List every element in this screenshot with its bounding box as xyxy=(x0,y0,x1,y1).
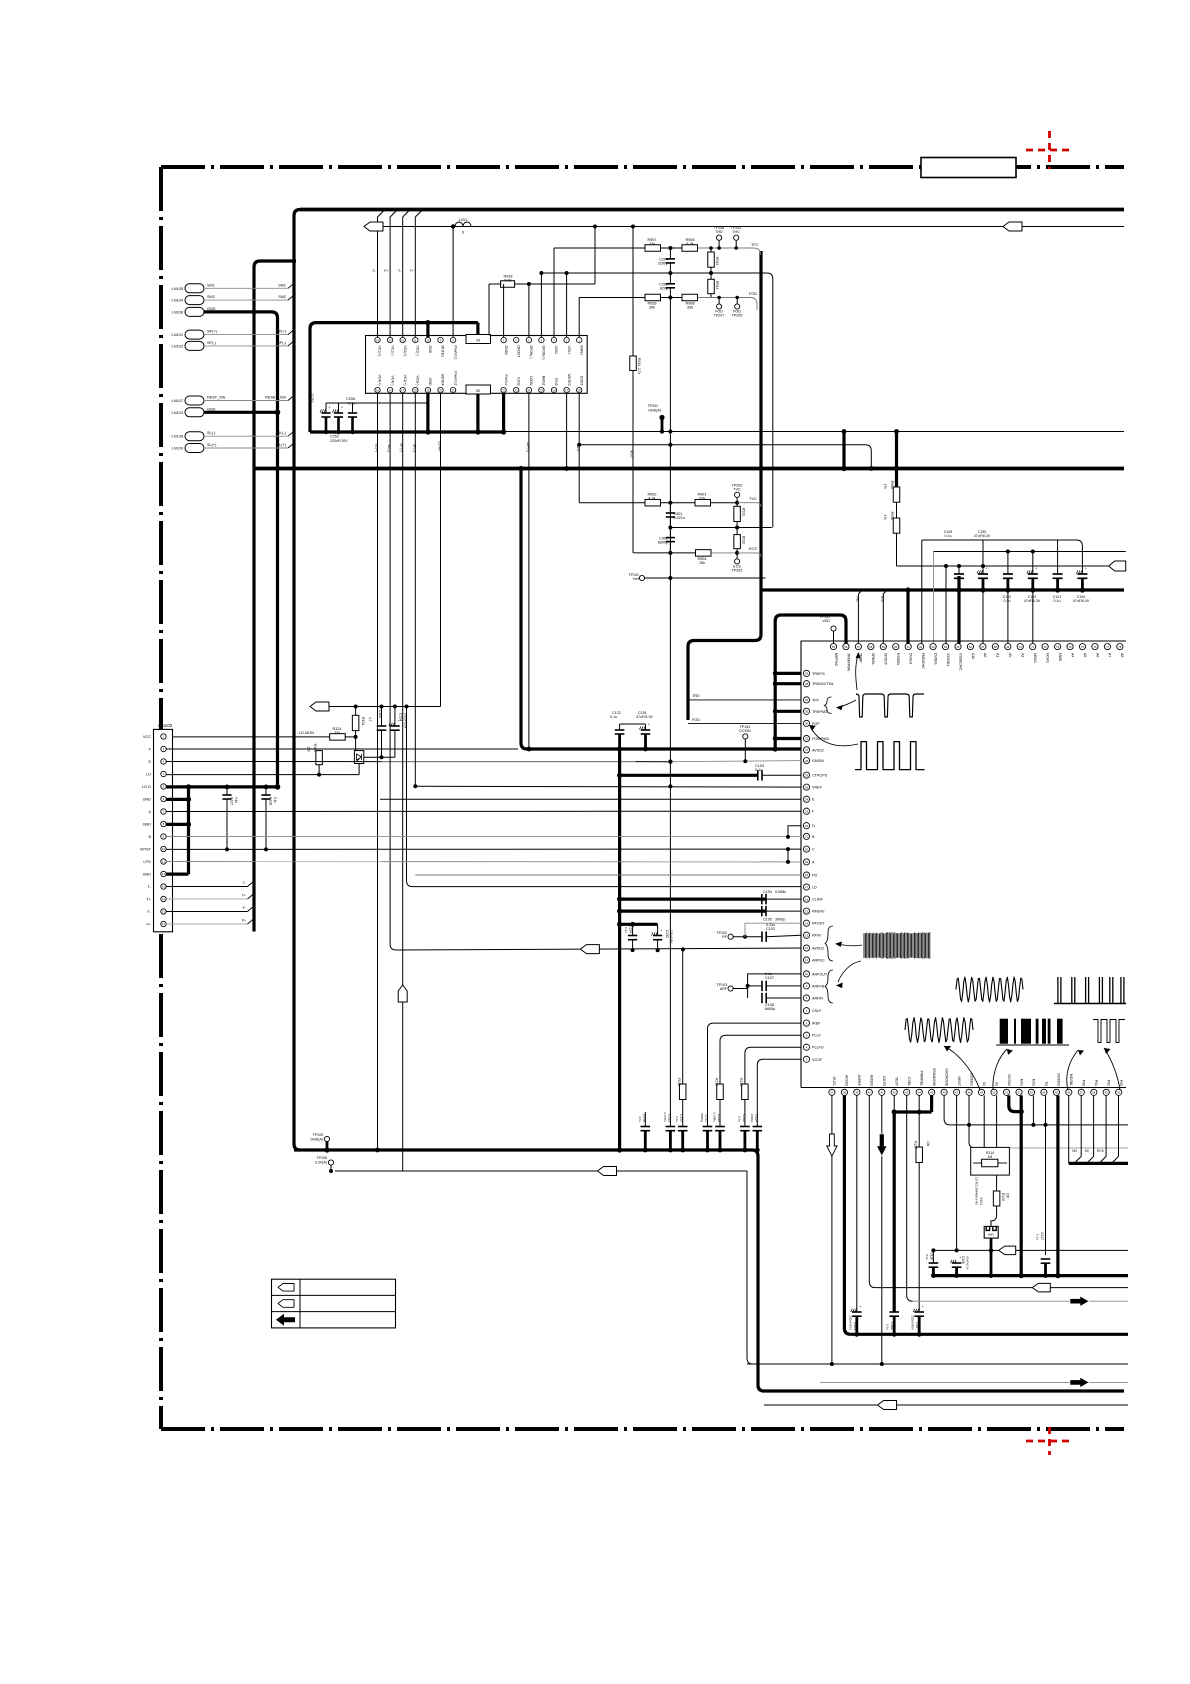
IC101 left pin 22 D xyxy=(803,823,809,829)
IC201 bottom pin 28 CONT xyxy=(577,387,582,392)
svg-text:VC2(+): VC2(+) xyxy=(403,346,407,357)
svg-text:5.6k: 5.6k xyxy=(504,279,511,283)
svg-text:DVDD1: DVDD1 xyxy=(933,653,937,665)
svg-text:MX1: MX1 xyxy=(1019,1079,1023,1086)
svg-text:GFON(+): GFON(+) xyxy=(542,346,546,360)
svg-text:VCC: VCC xyxy=(143,735,151,739)
svg-text:0.068u: 0.068u xyxy=(713,1113,717,1123)
svg-text:22k: 22k xyxy=(334,731,340,735)
IC201 bottom pin 16 VC4(-) xyxy=(387,387,392,392)
line y=708 top of LD-MON xyxy=(355,707,357,716)
line y=444.8 xyxy=(579,444,865,446)
svg-text:C128: C128 xyxy=(269,797,273,805)
wires P00-P03 diagonal to bus xyxy=(1080,1095,1082,1156)
svg-text:LN105: LN105 xyxy=(172,286,183,291)
svg-text:C206: C206 xyxy=(346,397,355,401)
bus V1 (x=254) with corner to y=261 xyxy=(254,261,296,932)
wire SPOUT to bus via 45-degree entry xyxy=(882,594,884,644)
CN102 pin7 A wire long xyxy=(166,810,801,812)
svg-text:4.7k: 4.7k xyxy=(648,497,655,501)
CN102 pin 6 GND xyxy=(161,796,166,801)
svg-text:TP205: TP205 xyxy=(732,314,743,318)
IC101 bottom pin MDSBL xyxy=(1066,1089,1072,1095)
svg-text:47uF/6.3V: 47uF/6.3V xyxy=(1073,599,1090,603)
svg-text:V2N2: V2N2 xyxy=(554,346,558,355)
waveform: wobble pulse pairs upper right xyxy=(1054,977,1126,1004)
svg-text:F+: F+ xyxy=(146,923,151,927)
vertical x=771.8 from y=273 xyxy=(772,279,774,528)
IC101 left pin 21 B xyxy=(803,833,809,839)
CN102 pin5 LO.G thick wire xyxy=(166,785,277,788)
capacitor C105 0.047u xyxy=(666,1126,676,1128)
test point TP103 ARF network xyxy=(728,986,733,991)
IC201 bottom pin 21 PowVcc2 xyxy=(450,387,455,392)
thick vertical x=521 and AVSS2 bus y=749 xyxy=(521,469,801,750)
resistor R912 5.6k xyxy=(736,528,738,535)
wire OUTR with down arrow xyxy=(881,1095,883,1364)
leader square wave to FGP xyxy=(811,728,858,746)
CN102 pin 3 E xyxy=(161,759,166,764)
svg-text:NCAS: NCAS xyxy=(1045,653,1049,663)
svg-text:22k: 22k xyxy=(699,497,705,501)
line y=502.7 R902 branch xyxy=(579,502,645,504)
bottom GND stubs to y=432 xyxy=(426,393,429,432)
wire SL(+) x=377.5 xyxy=(377,393,379,1150)
capacitor C128 0.1u xyxy=(265,787,267,795)
IC101 top pin A1 xyxy=(992,644,998,650)
svg-text:17: 17 xyxy=(805,885,809,889)
capacitor C901 0.022u xyxy=(669,503,671,513)
IC101 left pin 35 TRKPM2 xyxy=(803,708,809,714)
thick vertical x=908 DVSS1 xyxy=(906,590,909,644)
svg-text:C104: C104 xyxy=(378,710,382,718)
svg-text:SL(+): SL(+) xyxy=(375,443,379,452)
svg-text:A0: A0 xyxy=(983,653,987,657)
svg-text:33k: 33k xyxy=(687,306,693,310)
IC101 top pin AV xyxy=(1005,644,1011,650)
IC101 top pin RSSEN xyxy=(893,644,899,650)
svg-text:+: + xyxy=(1035,567,1037,571)
svg-text:E2S: E2S xyxy=(880,596,884,602)
svg-text:VSSECA/C: VSSECA/C xyxy=(958,653,962,671)
IC201 bottom pin 20 MUTE4 xyxy=(438,387,443,392)
svg-text:PLLFD: PLLFD xyxy=(812,1046,824,1050)
IC101 left pin 33 TRKPG xyxy=(803,670,809,676)
svg-text:RFOUT: RFOUT xyxy=(812,922,825,926)
svg-text:38: 38 xyxy=(805,682,809,686)
svg-text:47uF/6.3V: 47uF/6.3V xyxy=(966,1256,970,1270)
svg-text:OUTL: OUTL xyxy=(832,1077,836,1086)
wire PWMREL junction and R117 10k with C307 220uF/50V xyxy=(918,1095,920,1112)
svg-text:CONT: CONT xyxy=(579,376,583,386)
registration cross top-right (red) xyxy=(1026,149,1074,152)
capacitor C127 0.1u xyxy=(226,787,228,795)
resistor R904 15k xyxy=(696,550,712,557)
wire MX2 xyxy=(1032,1095,1034,1125)
thick bus y=590 xyxy=(761,588,1124,591)
svg-text:TRD: TRD xyxy=(692,694,700,698)
jog pin C from A line xyxy=(787,849,789,862)
svg-text:TVC: TVC xyxy=(733,488,741,492)
resistor R911 5.6k xyxy=(736,503,738,507)
capacitor C104 1u xyxy=(381,707,383,727)
test point TP154 DCKIN xyxy=(743,734,748,739)
line y=1405 with flag xyxy=(764,1404,878,1406)
svg-text:SP(-): SP(-) xyxy=(207,341,217,345)
svg-text:LN108: LN108 xyxy=(172,434,183,439)
svg-text:C253: C253 xyxy=(330,435,339,439)
leader from waveform to TFP bracket xyxy=(838,700,856,708)
svg-text:SM1: SM1 xyxy=(207,283,215,287)
gray GNDIN line y=761.7 xyxy=(670,761,801,762)
svg-text:LN102: LN102 xyxy=(172,343,183,348)
page border frame (dash-dot) xyxy=(161,165,1124,169)
off-page flag inline right xyxy=(1003,222,1022,231)
gray line y=1382.4 with right arrow xyxy=(820,1381,1128,1383)
svg-text:33VDD1: 33VDD1 xyxy=(946,653,950,666)
connector LN102 xyxy=(185,341,204,350)
svg-text:P00: P00 xyxy=(1082,1080,1086,1086)
svg-text:MDSBL: MDSBL xyxy=(1069,1074,1073,1086)
svg-text:13: 13 xyxy=(805,933,809,937)
svg-text:ARFFB: ARFFB xyxy=(812,984,825,988)
svg-text:C107: C107 xyxy=(765,976,774,980)
svg-text:ARFIN: ARFIN xyxy=(812,997,823,1001)
resistor R914b 2.7k on x=633 xyxy=(630,356,637,371)
svg-text:MUTE2: MUTE2 xyxy=(441,346,445,358)
svg-text:LN101: LN101 xyxy=(172,332,183,337)
svg-text:CNT: CNT xyxy=(576,445,580,453)
svg-text:6800p: 6800p xyxy=(700,1113,704,1122)
svg-text:LN104: LN104 xyxy=(172,298,184,303)
svg-text:18: 18 xyxy=(805,873,809,877)
resistor R907 22k xyxy=(645,245,661,252)
svg-text:30: 30 xyxy=(476,389,480,393)
title box on top border xyxy=(921,158,1016,178)
svg-text:0.1u: 0.1u xyxy=(1054,599,1061,603)
IC101 bottom pin SSHADOW xyxy=(929,1089,935,1095)
thick bus y=1275.6 xyxy=(933,1274,1128,1277)
IC101 left pin 34 TFP xyxy=(803,697,809,703)
svg-text:100: 100 xyxy=(1006,1193,1010,1199)
IC101 top pin NWE xyxy=(1055,644,1061,650)
off-page flag left end xyxy=(364,222,383,231)
stub x=645.3 xyxy=(644,1112,646,1127)
CN102 pin 14 T+ xyxy=(161,896,166,901)
test point TP105 GND(A) xyxy=(324,1136,329,1141)
svg-text:SL(-): SL(-) xyxy=(207,431,216,435)
capacitor C103 0.1u xyxy=(757,770,759,780)
svg-text:TM2: TM2 xyxy=(855,596,859,603)
svg-text:A1: A1 xyxy=(996,653,1000,657)
thick stub y=924.3 with caps C124 C152 xyxy=(620,923,658,926)
R918 5.6k above IC201 xyxy=(489,283,501,285)
svg-text:0.1u: 0.1u xyxy=(737,1116,741,1122)
svg-text:PWMREL: PWMREL xyxy=(920,1071,924,1086)
IC101 top pin NCAS xyxy=(1042,644,1048,650)
resistor R913 1k (vertical) xyxy=(710,248,712,252)
connector LN101 xyxy=(185,330,204,339)
resistor R914 5.1k (vertical) xyxy=(710,273,712,279)
CN102 pin 9 B xyxy=(161,834,166,839)
svg-text:GND: GND xyxy=(207,307,216,311)
wire IREF horizontal xyxy=(708,1023,802,1126)
svg-text:AVDD3: AVDD3 xyxy=(870,1075,874,1086)
svg-text:GND2: GND2 xyxy=(504,346,508,356)
svg-text:TRKPM2: TRKPM2 xyxy=(812,710,827,714)
connector LN107 xyxy=(185,396,204,405)
thick vertical x=959 VSSECA xyxy=(957,576,960,644)
thick line y=432 under IC201 xyxy=(310,430,504,433)
svg-text:+: + xyxy=(329,406,331,410)
svg-text:PowVcc2: PowVcc2 xyxy=(453,371,457,385)
flag line y=1250.4 xyxy=(933,1249,998,1251)
svg-text:RFENV: RFENV xyxy=(812,910,825,914)
wire LD+ x=528.9 xyxy=(528,393,530,749)
svg-text:47k: 47k xyxy=(883,484,887,490)
svg-text:21: 21 xyxy=(805,835,809,839)
bus V2 GND vertical (x=277.5) xyxy=(204,312,278,787)
svg-text:C105: C105 xyxy=(763,918,772,922)
IC101 top pin A4 xyxy=(1067,644,1073,650)
svg-text:TFP: TFP xyxy=(812,698,820,702)
CN102 pin4 LO wire xyxy=(166,774,359,776)
connector LN109 xyxy=(185,444,204,453)
wire to pin VREF y=786.3 xyxy=(415,785,801,788)
capacitor C108b 6800p on ARFIN xyxy=(761,993,763,1003)
svg-text:LD-MT: LD-MT xyxy=(438,441,442,453)
svg-text:0.047u: 0.047u xyxy=(663,1113,667,1123)
svg-text:TP201: TP201 xyxy=(647,404,658,408)
svg-text:15: 15 xyxy=(805,909,809,913)
IC201 top pin 10 GND xyxy=(425,337,430,342)
svg-text:BIAS2: BIAS2 xyxy=(542,376,546,386)
svg-text:LD: LD xyxy=(812,886,817,890)
IC101 left pin 38 TRKMG/TM1 xyxy=(803,681,809,687)
CN102 pin 4 LO xyxy=(161,771,166,776)
svg-text:WTST: WTST xyxy=(140,848,151,852)
IC101 bottom pin MX1 xyxy=(1016,1089,1022,1095)
svg-text:VDD: VDD xyxy=(822,619,830,623)
IC101 left pin 15 RFENV xyxy=(803,908,809,914)
svg-text:A10: A10 xyxy=(971,653,975,659)
svg-text:4.7u: 4.7u xyxy=(638,1116,642,1122)
IC201 top pin 4 GFON(+) xyxy=(539,337,544,342)
svg-text:0.1u: 0.1u xyxy=(945,534,952,538)
svg-text:RF: RF xyxy=(722,935,728,939)
capacitor C204 2200p xyxy=(669,248,671,258)
svg-text:VC3(-): VC3(-) xyxy=(416,376,420,386)
IC101 bottom pin AVREF xyxy=(854,1089,860,1095)
caps C252 C253 C206 under IC201 xyxy=(325,403,327,413)
svg-text:ARF: ARF xyxy=(720,987,728,991)
waveform: sine wave upper xyxy=(956,977,1023,1002)
svg-text:4.7: 4.7 xyxy=(368,717,372,722)
CN102 pin 5 LO.G xyxy=(161,784,166,789)
svg-text:T+: T+ xyxy=(146,898,151,902)
line y=540 xyxy=(922,540,1083,574)
svg-text:29: 29 xyxy=(476,339,480,343)
IC101 bottom pin TEST xyxy=(891,1089,897,1095)
svg-text:R906: R906 xyxy=(890,512,894,520)
svg-text:NRST: NRST xyxy=(957,1076,961,1086)
bracket ARF pins xyxy=(825,970,833,1003)
thick ground tie x=775.2 to IC pins and top pin TRKM/PM0 xyxy=(775,615,846,749)
svg-text:29: 29 xyxy=(805,773,809,777)
svg-text:0.1u: 0.1u xyxy=(886,1324,890,1330)
svg-text:A5: A5 xyxy=(1083,653,1087,657)
svg-text:CN102: CN102 xyxy=(158,723,173,728)
svg-text:LO: LO xyxy=(146,773,151,777)
IC101 top pin A10 xyxy=(967,644,973,650)
svg-text:SSHADOW: SSHADOW xyxy=(932,1068,936,1087)
svg-text:NO: NO xyxy=(1072,1149,1077,1153)
IC101 bottom pin PWMREL xyxy=(916,1089,922,1095)
svg-text:THD: THD xyxy=(715,230,723,234)
svg-text:1M: 1M xyxy=(988,1155,993,1159)
svg-text:16: 16 xyxy=(805,897,809,901)
svg-text:DCKIN: DCKIN xyxy=(739,729,751,733)
GND tie bar x=188.5 xyxy=(187,787,190,874)
capacitor C152 0.1u xyxy=(678,1126,688,1128)
flag line y=706.5 LD monitor xyxy=(310,702,329,711)
svg-text:10: 10 xyxy=(805,972,809,976)
FOD line to pin FGP xyxy=(688,722,801,724)
svg-text:20: 20 xyxy=(805,847,809,851)
capacitor C121 0.1u xyxy=(1057,540,1059,574)
svg-text:SP(-): SP(-) xyxy=(277,341,287,345)
svg-text:ECS: ECS xyxy=(749,547,757,551)
svg-text:F+: F+ xyxy=(242,919,246,923)
wire SSHADOW to tie xyxy=(930,1095,933,1112)
svg-text:6800p: 6800p xyxy=(765,1007,775,1011)
svg-text:TP105: TP105 xyxy=(312,1133,323,1137)
CN102 pin 2 F xyxy=(161,746,166,751)
IC101 bottom pin SSCMODE xyxy=(941,1089,947,1095)
svg-text:0.022u: 0.022u xyxy=(674,516,685,520)
bus: top horizontal thick line xyxy=(300,208,1124,212)
IC101 bottom pin X1 xyxy=(978,1089,984,1095)
svg-text:0.1u: 0.1u xyxy=(765,972,772,976)
svg-text:3900p: 3900p xyxy=(775,918,785,922)
svg-text:V2N1: V2N1 xyxy=(567,346,571,355)
svg-text:LDON: LDON xyxy=(529,376,533,386)
svg-text:47uF/6.3V: 47uF/6.3V xyxy=(974,534,991,538)
svg-text:GND: GND xyxy=(428,378,432,386)
svg-text:100uF/16V: 100uF/16V xyxy=(404,713,408,729)
thick stub pin22 PreVcc to y=432 xyxy=(502,393,505,432)
svg-text:SP(+): SP(+) xyxy=(207,330,218,334)
IC101 left pin 18 PD xyxy=(803,872,809,878)
svg-text:CSTCC3M4W53-R0: CSTCC3M4W53-R0 xyxy=(974,1177,978,1205)
thick hook bus x=761 to FOD/TRD xyxy=(688,251,761,720)
svg-text:ARFOUT: ARFOUT xyxy=(812,972,828,976)
resistor R110 820 xyxy=(717,1084,724,1100)
IC101 top pin NRAS xyxy=(1030,644,1036,650)
svg-text:NWE: NWE xyxy=(1058,653,1062,662)
svg-text:T+: T+ xyxy=(242,894,246,898)
IC201 bottom pin 22 PreVcc xyxy=(501,387,506,392)
svg-text:NRAS: NRAS xyxy=(1033,653,1037,663)
IC101 left pin 32 FGM/PM3 xyxy=(803,735,809,741)
IC101 top pin A7 xyxy=(1104,644,1110,650)
IC101 left pin 24 E xyxy=(803,796,809,802)
svg-text:AVSS2: AVSS2 xyxy=(812,748,824,752)
capacitor C107 0.1u on ARFFB xyxy=(748,985,762,987)
IC101 bottom pin P03 xyxy=(1116,1089,1122,1095)
svg-text:LPG: LPG xyxy=(143,860,151,864)
line y=297.5 FOD xyxy=(579,297,645,299)
long vertical x=670.4 xyxy=(669,298,671,1127)
IC201 top wires to bus (F- F+ T- T+) xyxy=(377,217,379,337)
svg-text:SP(+): SP(+) xyxy=(276,330,287,334)
wire CNT x=579.2 xyxy=(578,393,580,503)
svg-text:0.1u: 0.1u xyxy=(755,768,762,772)
svg-text:GND(A): GND(A) xyxy=(648,409,661,413)
svg-text:TFC: TFC xyxy=(751,243,759,247)
svg-text:SP(+): SP(+) xyxy=(400,443,404,452)
line y=1287.6 with flag xyxy=(875,1287,1032,1289)
IC101 top pin 33VDD1 xyxy=(942,644,948,650)
line y=1171 with flag and TP106 xyxy=(335,1170,747,1172)
leader from TEMP pin to waveform xyxy=(856,653,859,690)
svg-text:C252: C252 xyxy=(310,394,314,403)
svg-text:33: 33 xyxy=(805,672,809,676)
resistor R906b 47k xyxy=(893,518,900,533)
svg-text:C114: C114 xyxy=(754,1114,758,1122)
svg-text:8.2k: 8.2k xyxy=(686,242,693,246)
gray line y=551.5 xyxy=(934,551,1126,553)
svg-text:MUTE4: MUTE4 xyxy=(441,374,445,386)
CN102 pin 16 F+ xyxy=(161,921,166,926)
svg-text:A4: A4 xyxy=(1070,653,1074,657)
capacitor C154 100uF/16V electrolytic xyxy=(394,707,396,727)
resistor R906 8.2k xyxy=(682,245,698,252)
svg-text:AVREF: AVREF xyxy=(857,1075,861,1086)
CN102 pins13-16 wires to bus V1 xyxy=(166,886,247,888)
test point TP207 FOD xyxy=(717,304,722,309)
IC101 top pin A0 xyxy=(980,644,986,650)
svg-text:R111: R111 xyxy=(677,1078,681,1086)
test point TP204 THC xyxy=(734,235,739,240)
svg-text:A6: A6 xyxy=(1095,653,1099,657)
line y=1364 xyxy=(747,1363,1128,1365)
IC101 bottom pin OUTL xyxy=(829,1089,835,1095)
svg-text:C102: C102 xyxy=(766,927,775,931)
CTRCPS thick line y=775.3 with C103 xyxy=(620,774,757,777)
IC101 left pin 25 VREF xyxy=(803,784,809,790)
svg-text:100uF/4V: 100uF/4V xyxy=(670,930,674,944)
leader arrows bottom xyxy=(944,1046,980,1090)
capacitor C112 0.1u xyxy=(740,1126,750,1128)
capacitor C111 6800p xyxy=(703,1126,713,1128)
test point TP102 RF and C102 0.33u xyxy=(728,934,733,939)
svg-text:X101: X101 xyxy=(979,1197,983,1205)
svg-text:32: 32 xyxy=(805,737,809,741)
svg-text:RESET_SW: RESET_SW xyxy=(265,396,286,400)
thick wire MX1 xyxy=(1020,1095,1023,1275)
pin29 stub xyxy=(476,323,479,335)
svg-text:22: 22 xyxy=(805,824,809,828)
test point TP101 Vref xyxy=(639,575,644,580)
wire SP(+) x=402.7 with up flag xyxy=(402,393,404,1171)
thick vertical x=619.6 down to y=1150 xyxy=(618,749,621,1150)
svg-text:AV: AV xyxy=(1008,653,1012,658)
svg-text:820p: 820p xyxy=(660,287,668,291)
svg-text:LO.G: LO.G xyxy=(142,785,151,789)
IC101 left pin 10 ARFOUT xyxy=(803,971,809,977)
wire PLLFD horizontal xyxy=(745,1047,801,1084)
